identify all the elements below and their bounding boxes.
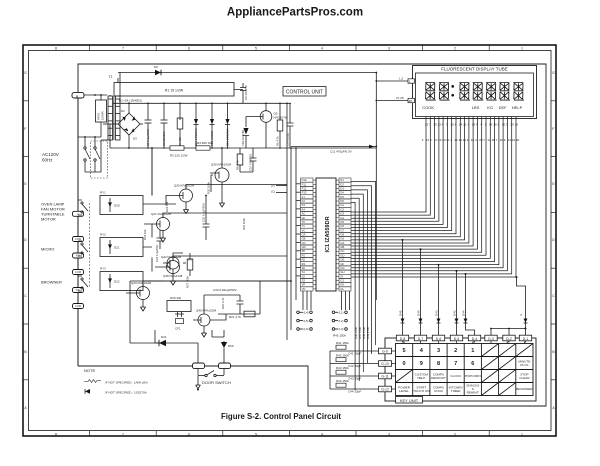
svg-text:G: G <box>24 71 27 75</box>
svg-text:K4: K4 <box>302 207 306 211</box>
svg-text:GH: GH <box>340 270 344 274</box>
diode D50 <box>223 341 225 363</box>
key unit enclosure <box>385 338 536 401</box>
svg-text:RY1: RY1 <box>100 191 106 195</box>
diode D30 <box>155 343 198 363</box>
svg-text:T1: T1 <box>302 224 306 228</box>
svg-text:20: 20 <box>510 123 514 127</box>
svg-text:D9: D9 <box>154 65 158 69</box>
svg-text:(L2): (L2) <box>339 319 344 323</box>
svg-text:CLOCK: CLOCK <box>450 374 462 378</box>
interlock switch 2 <box>94 147 96 149</box>
wire DC bus upper <box>113 102 291 104</box>
wire Q23 collector <box>143 281 291 287</box>
svg-text:P13: P13 <box>302 191 307 195</box>
wire display pin 11 to IC <box>351 117 469 244</box>
door switch ground <box>196 376 201 389</box>
terminal NO at y=290.0 <box>73 288 84 293</box>
display digit 6 <box>499 83 510 101</box>
wire bundle IC upper right pins down to resistor ladder <box>351 182 376 391</box>
display digit 1 <box>425 83 436 101</box>
wire heater top rail <box>118 72 376 74</box>
svg-text:13: 13 <box>425 123 429 127</box>
svg-text:RY2: RY2 <box>100 233 106 237</box>
control unit boundary outline <box>78 64 546 406</box>
diode D10 <box>193 103 198 148</box>
IC1 right pin boxes <box>336 178 351 291</box>
svg-text:2: 2 <box>454 47 456 51</box>
inner border frame <box>29 51 552 431</box>
svg-text:2: 2 <box>454 348 457 354</box>
svg-text:IF NOT SPECIFIED : 1/6W ±5%: IF NOT SPECIFIED : 1/6W ±5% <box>105 381 148 385</box>
svg-text:R21 4.7k: R21 4.7k <box>229 315 242 319</box>
resistor R3 inline <box>170 146 184 150</box>
svg-text:COOK: COOK <box>434 389 444 393</box>
svg-text:1,2: 1,2 <box>399 77 404 81</box>
wire display pin 13 to IC <box>351 117 477 250</box>
svg-text:P10: P10 <box>302 178 307 182</box>
svg-text:GF: GF <box>340 262 344 266</box>
wire display pin 19 to IC <box>351 117 503 268</box>
svg-text:POPCORN: POPCORN <box>465 374 481 378</box>
svg-text:D20: D20 <box>114 204 120 208</box>
svg-text:GC: GC <box>302 241 306 245</box>
svg-text:CF1: CF1 <box>175 327 181 331</box>
svg-text:R23 10k: R23 10k <box>165 201 169 212</box>
svg-text:P12: P12 <box>302 186 307 190</box>
svg-text:GA: GA <box>302 232 306 236</box>
svg-text:20: 20 <box>450 123 454 127</box>
svg-text:G9: G9 <box>340 237 344 241</box>
capacitor C6 <box>287 103 294 148</box>
svg-text:RY3: RY3 <box>100 267 106 271</box>
capacitor C1 <box>145 103 152 148</box>
varistor VRS1 <box>96 100 107 122</box>
wire display pin 18 to IC <box>351 117 499 265</box>
svg-text:C9 470/35V: C9 470/35V <box>244 85 248 100</box>
svg-text:D-3: D-3 <box>488 337 494 341</box>
svg-text:4: 4 <box>321 432 323 436</box>
wire display pin 9 to IC <box>351 117 460 237</box>
svg-text:16: 16 <box>489 123 493 127</box>
svg-text:(L6): (L6) <box>304 327 309 331</box>
svg-text:C43 33pF: C43 33pF <box>348 377 361 381</box>
svg-text:G5: G5 <box>340 220 344 224</box>
svg-text:16: 16 <box>493 123 497 127</box>
svg-text:1: 1 <box>471 348 474 354</box>
wire display pins 1,2 <box>376 80 408 82</box>
svg-text:8: 8 <box>55 432 57 436</box>
key matrix grid <box>396 344 534 396</box>
svg-text:R30 100k: R30 100k <box>207 181 211 194</box>
svg-text:G-11: G-11 <box>381 374 388 378</box>
svg-text:D3: D3 <box>133 137 137 141</box>
svg-text:COM: COM <box>75 237 81 241</box>
svg-text:R3: R3 <box>302 262 306 266</box>
svg-text:G3: G3 <box>340 212 344 216</box>
resistor R9 <box>239 148 241 172</box>
terminal NO at y=255.5 <box>73 253 84 258</box>
svg-text:GD: GD <box>340 253 344 257</box>
display pin number labels row 2 <box>422 138 520 142</box>
transistor Q35 <box>167 257 179 269</box>
svg-text:D21: D21 <box>114 246 120 250</box>
ground Q20 <box>183 210 188 214</box>
resistor R43 / capacitor C43 <box>330 375 379 377</box>
wire display pin 20 to IC <box>351 117 507 271</box>
svg-text:R26 100k: R26 100k <box>242 217 246 230</box>
resonator CF1 <box>176 319 184 324</box>
svg-text:Q35 KRA4148: Q35 KRA4148 <box>163 274 183 278</box>
resistor R42 / capacitor C42 <box>330 363 379 365</box>
svg-text:D11 1SS270A: D11 1SS270A <box>226 128 230 146</box>
ground Q23 <box>140 307 145 311</box>
svg-text:G4: G4 <box>340 216 344 220</box>
svg-text:16: 16 <box>515 123 519 127</box>
svg-text:GC: GC <box>340 249 344 253</box>
svg-text:7: 7 <box>122 47 124 51</box>
svg-text:DEF: DEF <box>499 105 508 110</box>
svg-text:D-2: D-2 <box>506 337 512 341</box>
wire relay RY3 coil supply <box>151 258 153 272</box>
svg-text:1: 1 <box>521 47 523 51</box>
svg-text:KEY UNIT: KEY UNIT <box>400 398 419 403</box>
wire AC to transformer <box>78 136 101 138</box>
svg-text:D5: D5 <box>340 195 344 199</box>
display digit 5 <box>486 83 497 101</box>
svg-text:D44: D44 <box>461 310 465 316</box>
svg-text:MICRO: MICRO <box>41 247 54 252</box>
svg-text:G7: G7 <box>340 228 344 232</box>
svg-text:GE: GE <box>340 258 344 262</box>
relay contact switch <box>81 278 83 280</box>
svg-text:20: 20 <box>516 138 520 142</box>
ground Q22 <box>170 281 175 285</box>
svg-text:G-12: G-12 <box>381 387 389 391</box>
svg-text:8: 8 <box>55 47 57 51</box>
ground Q40 <box>201 333 206 337</box>
svg-text:D1: D1 <box>340 178 344 182</box>
wire display pin 5 to IC <box>351 117 443 225</box>
wire rail VP <box>295 148 297 300</box>
svg-text:R9 4.7k: R9 4.7k <box>236 160 240 170</box>
svg-text:C10 470/6.3V: C10 470/6.3V <box>249 154 253 171</box>
diode D9 <box>155 70 161 76</box>
svg-text:R7 180: R7 180 <box>178 137 182 146</box>
key scan drop wires with diodes D40-D45 <box>401 240 528 335</box>
IC1 left pin boxes <box>301 178 317 291</box>
resistor R4 inline <box>196 146 210 150</box>
svg-text:G1: G1 <box>340 203 344 207</box>
svg-text:IF NOT SPECIFIED : 1SS270A: IF NOT SPECIFIED : 1SS270A <box>105 391 147 395</box>
svg-text:C11 470μF/6.3V: C11 470μF/6.3V <box>330 150 352 154</box>
svg-text:CK: CK <box>302 216 306 220</box>
outer border frame <box>23 45 556 436</box>
svg-text:D31: D31 <box>161 335 167 339</box>
svg-text:R4 680 1W: R4 680 1W <box>197 141 212 145</box>
wire RY3 to Q22 <box>143 256 287 281</box>
svg-text:T0: T0 <box>302 220 306 224</box>
ground Q30 <box>219 203 224 207</box>
svg-text:MOTOR: MOTOR <box>41 217 56 222</box>
door switch contacts <box>198 369 224 375</box>
svg-text:GK: GK <box>340 283 344 287</box>
svg-text:(F): (F) <box>188 258 192 262</box>
svg-text:F: F <box>552 127 554 131</box>
svg-text:R44 150k: R44 150k <box>336 379 349 383</box>
svg-text:C20 0.1μF/50V: C20 0.1μF/50V <box>202 203 206 222</box>
svg-text:2: 2 <box>454 432 456 436</box>
svg-text:5: 5 <box>403 348 406 354</box>
svg-text:C2 220/25V: C2 220/25V <box>162 131 166 146</box>
svg-text:COM: COM <box>75 270 81 274</box>
svg-text:1: 1 <box>521 432 523 436</box>
svg-text:KG: KG <box>487 105 493 110</box>
svg-text:HELP: HELP <box>512 105 523 110</box>
svg-text:DOOR SWITCH: DOOR SWITCH <box>202 380 231 385</box>
wire relay RY1 coil supply <box>151 148 153 196</box>
terminal COM at y=239.0 <box>73 237 84 242</box>
svg-text:TOUCH ON: TOUCH ON <box>413 389 429 393</box>
svg-text:(L5): (L5) <box>304 319 309 323</box>
svg-text:6: 6 <box>188 432 190 436</box>
svg-text:15: 15 <box>433 123 437 127</box>
svg-text:PLUS: PLUS <box>520 363 528 367</box>
svg-text:VC: VC <box>302 228 306 232</box>
wire display pin 14 to IC <box>351 117 482 253</box>
svg-text:AC: AC <box>302 212 306 216</box>
svg-text:GB: GB <box>302 237 306 241</box>
capacitor C9 <box>234 83 246 103</box>
wire display pin 10 to IC <box>351 117 465 240</box>
wire filament bus vertical <box>375 73 377 301</box>
svg-text:VN: VN <box>302 287 306 291</box>
display pin number labels row 1 <box>425 123 519 127</box>
wire display pin 15 to IC <box>351 117 486 256</box>
svg-text:BROWNER: BROWNER <box>41 280 62 285</box>
svg-text:60Hz: 60Hz <box>42 158 53 163</box>
bridge rectifier D1-D4 <box>118 113 140 135</box>
resistor R44 / capacitor C44 <box>330 388 379 390</box>
wire RY1 to Q20 <box>143 185 287 205</box>
key unit terminal boxes G-9..G-12 <box>379 348 392 392</box>
svg-text:FLUORESCENT DISPLAY TUBE: FLUORESCENT DISPLAY TUBE <box>441 67 507 72</box>
svg-text:G6: G6 <box>340 224 344 228</box>
svg-text:5: 5 <box>255 47 257 51</box>
IC1 right pin name smudges <box>340 178 344 291</box>
diode D11 <box>225 103 230 148</box>
capacitor C20 <box>203 196 210 241</box>
resistor R7 <box>177 103 183 148</box>
svg-text:3: 3 <box>437 348 440 354</box>
jumper pads L4-L6 <box>297 311 348 330</box>
wire stubs to IC1 left pins <box>297 184 301 276</box>
wire display pin 12 to IC <box>351 117 473 247</box>
svg-text:DEFROST: DEFROST <box>431 376 446 380</box>
svg-text:CLEAR: CLEAR <box>519 376 530 380</box>
svg-text:7: 7 <box>122 432 124 436</box>
svg-text:IC1 IZA559DR: IC1 IZA559DR <box>325 216 331 252</box>
svg-text:G8: G8 <box>340 232 344 236</box>
wire display pin 1 to IC <box>351 117 426 213</box>
svg-text:D-4: D-4 <box>472 337 478 341</box>
svg-text:R49 150k: R49 150k <box>366 326 370 339</box>
svg-text:S0: S0 <box>302 266 306 270</box>
svg-text:COOK: COOK <box>422 105 434 110</box>
svg-text:R3 220 1/2W: R3 220 1/2W <box>170 154 188 158</box>
svg-text:(L4): (L4) <box>304 311 309 315</box>
wire rail VDD <box>286 103 288 340</box>
svg-text:0: 0 <box>403 361 406 367</box>
svg-text:TIMER: TIMER <box>451 389 461 393</box>
svg-text:C42 33pF: C42 33pF <box>348 364 361 368</box>
terminal COM at y=306.0 <box>73 304 84 309</box>
resistor R1 15 1/2W <box>114 83 234 97</box>
svg-text:23: 23 <box>438 123 442 127</box>
svg-text:D-5: D-5 <box>454 337 460 341</box>
zener diode ZD1 <box>209 103 214 148</box>
svg-text:AC120V: AC120V <box>42 152 59 157</box>
wire display pins 27,28 <box>376 100 408 102</box>
svg-text:C30 0.022μF/50V: C30 0.022μF/50V <box>213 288 237 292</box>
svg-text:R41 150k: R41 150k <box>336 341 349 345</box>
svg-text:28: 28 <box>409 99 413 103</box>
svg-text:AppliancePartsPros.com: AppliancePartsPros.com <box>227 7 363 19</box>
key unit terminal boxes D-8..D-1 <box>396 335 531 341</box>
svg-text:GD: GD <box>302 245 306 249</box>
svg-text:3,: 3, <box>519 313 523 316</box>
capacitor C2 <box>161 103 168 148</box>
wire display pin 8 to IC <box>351 117 456 234</box>
door interlock linkage dashed <box>89 203 91 288</box>
wire display pin 3 to IC <box>351 117 435 219</box>
border zone tick marks <box>89 45 91 51</box>
resistor R41 / capacitor C41 <box>330 350 379 352</box>
svg-text:D42: D42 <box>452 310 456 316</box>
svg-text:7: 7 <box>454 361 457 367</box>
svg-text:K3: K3 <box>302 203 306 207</box>
base resistors <box>126 196 175 294</box>
svg-text:VP: VP <box>302 283 306 287</box>
interlock switch 1 <box>84 147 86 149</box>
wire display pin 7 to IC <box>351 117 452 231</box>
svg-text:R6 4.7k: R6 4.7k <box>276 136 280 146</box>
svg-text:8: 8 <box>437 361 440 367</box>
resistor R27 <box>189 253 191 276</box>
svg-text:R42 150k: R42 150k <box>336 354 349 358</box>
svg-text:10: 10 <box>502 123 506 127</box>
svg-text:D-7: D-7 <box>418 337 424 341</box>
svg-text:160NR: 160NR <box>101 111 105 120</box>
svg-text:GI: GI <box>340 274 343 278</box>
svg-text:5: 5 <box>255 432 257 436</box>
wire C9 node <box>291 146 376 148</box>
svg-text:D3: D3 <box>340 186 344 190</box>
svg-text:D4: D4 <box>340 191 344 195</box>
svg-text:REHEAT: REHEAT <box>467 391 479 395</box>
door switch terminal box 2 <box>219 363 231 369</box>
wire display pin 4 to IC <box>351 117 439 222</box>
svg-text:GB: GB <box>340 245 344 249</box>
wires IC bottom pins to jumpers <box>303 291 350 310</box>
svg-text:R20 4.7k: R20 4.7k <box>221 297 225 309</box>
svg-text:BROWNER: BROWNER <box>516 387 533 391</box>
svg-text:R27 100k: R27 100k <box>186 275 190 288</box>
wire interlock to transformer return <box>85 140 101 172</box>
svg-text:HELP: HELP <box>417 376 425 380</box>
svg-text:S3: S3 <box>302 279 306 283</box>
svg-text:D50: D50 <box>228 344 234 348</box>
svg-text:NO: NO <box>76 288 80 292</box>
terminal COM at y=272.0 <box>73 270 84 275</box>
relay contact switch <box>81 243 83 245</box>
wire display pin 22 to IC <box>351 117 516 278</box>
svg-text:LEVEL: LEVEL <box>399 389 409 393</box>
control unit label box <box>283 87 326 97</box>
svg-text:C1 0.1μ/450V: C1 0.1μ/450V <box>146 129 150 146</box>
svg-text:LBS: LBS <box>472 105 480 110</box>
wire bottom bus <box>130 280 291 282</box>
svg-text:R1: R1 <box>302 253 306 257</box>
display digit 4 <box>473 83 484 101</box>
wire rail GND <box>290 148 292 330</box>
svg-text:F: F <box>24 127 26 131</box>
svg-text:(L1): (L1) <box>339 311 344 315</box>
resistor R30 <box>211 175 213 192</box>
resistor R6 <box>279 103 281 148</box>
wire relay RY2 coil supply <box>151 224 153 238</box>
svg-text:D43: D43 <box>434 310 438 316</box>
svg-text:GL: GL <box>340 287 344 291</box>
svg-text:D2: D2 <box>121 109 125 113</box>
svg-text:19: 19 <box>472 123 476 127</box>
svg-text:S1: S1 <box>302 270 306 274</box>
svg-text:G2: G2 <box>340 207 344 211</box>
svg-text:(C): (C) <box>271 190 275 194</box>
svg-text:27,28: 27,28 <box>396 96 404 100</box>
key unit label box <box>396 397 423 404</box>
note line 2 diode legend <box>85 389 90 394</box>
svg-text:R24 10k: R24 10k <box>143 229 147 240</box>
svg-text:D44: D44 <box>416 310 420 316</box>
terminal A at y=213.8 <box>73 211 84 216</box>
zener diode ZD2 <box>243 117 249 149</box>
wire display pin 6 to IC <box>351 117 447 228</box>
svg-text:K2: K2 <box>302 199 306 203</box>
door switch terminal box 1 <box>193 363 205 369</box>
IC1 left pin name smudges <box>302 178 307 291</box>
diode D22 <box>109 274 111 288</box>
wire display pin 2 to IC <box>351 117 430 216</box>
fluorescent display tube outer box <box>413 66 537 119</box>
diode D21 <box>109 240 111 254</box>
svg-text:NOTE: NOTE <box>84 368 95 373</box>
svg-text:R45 150k: R45 150k <box>333 334 346 338</box>
svg-text:D-8: D-8 <box>400 337 406 341</box>
svg-text:9: 9 <box>420 361 423 367</box>
svg-text:D-6: D-6 <box>436 337 442 341</box>
svg-text:Figure S-2. Control Panel Circ: Figure S-2. Control Panel Circuit <box>221 412 341 421</box>
svg-text:K1: K1 <box>302 195 306 199</box>
svg-text:3: 3 <box>388 432 390 436</box>
key matrix button labels <box>398 348 533 395</box>
svg-text:6: 6 <box>471 361 474 367</box>
svg-text:(L3): (L3) <box>339 327 344 331</box>
svg-text:R40 33k: R40 33k <box>170 296 182 300</box>
svg-text:R43 150k: R43 150k <box>336 366 349 370</box>
svg-text:D22: D22 <box>114 280 120 284</box>
wire display pin 17 to IC <box>351 117 495 262</box>
